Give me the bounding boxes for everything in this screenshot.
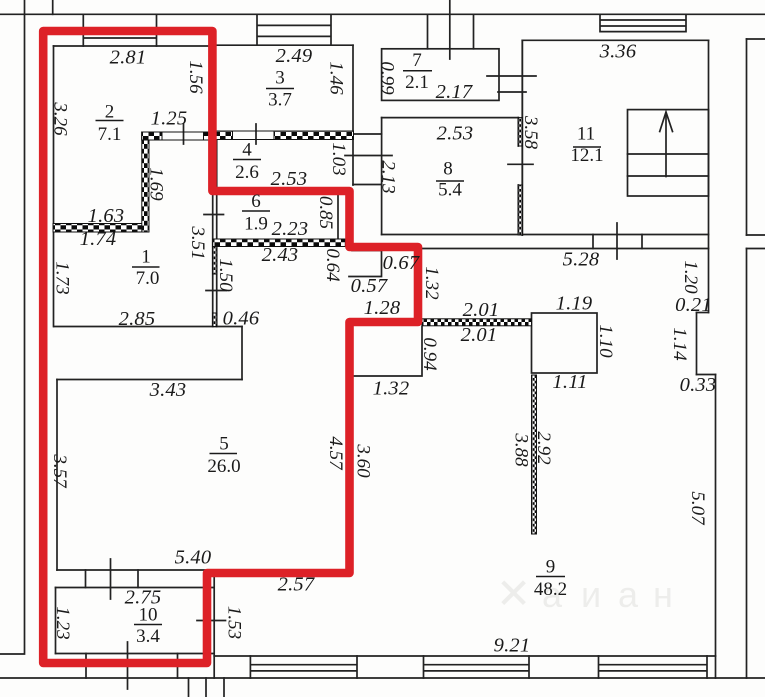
svg-text:н: н	[653, 574, 673, 615]
svg-text:11: 11	[577, 124, 595, 145]
svg-text:2.23: 2.23	[272, 218, 309, 240]
svg-text:3.88: 3.88	[511, 432, 532, 467]
svg-text:4: 4	[242, 140, 252, 161]
svg-text:0.21: 0.21	[675, 294, 712, 316]
svg-text:1.73: 1.73	[52, 261, 73, 294]
svg-text:1.69: 1.69	[146, 167, 167, 201]
svg-text:5.28: 5.28	[563, 249, 600, 271]
svg-text:8: 8	[443, 159, 453, 180]
svg-text:1: 1	[141, 247, 151, 268]
svg-text:5.4: 5.4	[438, 180, 462, 201]
svg-text:6: 6	[251, 191, 261, 212]
svg-text:2.13: 2.13	[378, 160, 399, 193]
svg-text:1.63: 1.63	[88, 205, 125, 227]
svg-text:2.92: 2.92	[533, 431, 554, 465]
svg-text:1.03: 1.03	[328, 142, 349, 175]
svg-text:1.25: 1.25	[151, 108, 188, 130]
svg-text:0.67: 0.67	[383, 252, 420, 274]
svg-text:48.2: 48.2	[534, 579, 567, 600]
svg-text:3.57: 3.57	[49, 453, 70, 489]
svg-text:1.20: 1.20	[680, 260, 701, 294]
svg-text:3.60: 3.60	[353, 443, 374, 478]
svg-text:3.36: 3.36	[599, 41, 637, 63]
svg-text:✕: ✕	[496, 570, 531, 617]
svg-text:3.58: 3.58	[520, 115, 541, 150]
svg-text:9.21: 9.21	[494, 635, 531, 657]
svg-text:0.64: 0.64	[322, 248, 343, 282]
svg-text:2.81: 2.81	[110, 47, 147, 69]
svg-text:2.01: 2.01	[461, 324, 498, 346]
svg-text:2.01: 2.01	[463, 299, 500, 321]
svg-text:2.6: 2.6	[235, 162, 259, 183]
svg-text:2.75: 2.75	[125, 587, 162, 609]
svg-text:1.32: 1.32	[373, 378, 410, 400]
svg-text:5: 5	[219, 434, 229, 455]
svg-text:0.99: 0.99	[377, 61, 398, 95]
svg-text:2.85: 2.85	[119, 308, 156, 330]
svg-text:7: 7	[412, 50, 422, 71]
svg-text:3.7: 3.7	[268, 90, 292, 111]
svg-text:4.57: 4.57	[325, 436, 346, 471]
svg-text:2.53: 2.53	[271, 168, 308, 190]
svg-text:1.28: 1.28	[364, 297, 401, 319]
svg-text:9: 9	[546, 557, 556, 578]
svg-text:0.94: 0.94	[419, 337, 440, 371]
svg-text:и: и	[581, 574, 601, 615]
svg-text:1.11: 1.11	[552, 371, 587, 393]
svg-text:а: а	[618, 574, 639, 615]
svg-text:2: 2	[105, 102, 115, 123]
svg-text:5.07: 5.07	[687, 491, 708, 526]
svg-text:3.43: 3.43	[149, 379, 187, 401]
svg-text:0.46: 0.46	[223, 308, 260, 330]
svg-text:2.1: 2.1	[405, 72, 429, 93]
svg-text:5.40: 5.40	[175, 547, 212, 569]
svg-text:2.49: 2.49	[276, 45, 313, 67]
svg-text:2.53: 2.53	[437, 123, 474, 145]
svg-text:0.85: 0.85	[315, 196, 336, 229]
svg-text:3.51: 3.51	[187, 225, 208, 259]
svg-text:1.50: 1.50	[215, 258, 236, 292]
svg-text:26.0: 26.0	[207, 456, 240, 477]
svg-text:1.46: 1.46	[326, 61, 347, 95]
svg-text:1.56: 1.56	[185, 60, 206, 94]
svg-text:12.1: 12.1	[570, 145, 603, 166]
svg-text:1.14: 1.14	[669, 327, 690, 361]
svg-text:1.19: 1.19	[556, 293, 593, 315]
svg-text:1.9: 1.9	[244, 214, 268, 235]
svg-text:3.4: 3.4	[136, 626, 160, 647]
svg-text:1.74: 1.74	[80, 228, 117, 250]
svg-text:0.33: 0.33	[680, 374, 717, 396]
svg-text:1.53: 1.53	[224, 606, 245, 639]
svg-text:7.0: 7.0	[136, 268, 160, 289]
svg-text:2.57: 2.57	[278, 574, 315, 596]
svg-text:2.43: 2.43	[262, 244, 299, 266]
svg-text:1.32: 1.32	[421, 266, 442, 300]
svg-text:1.10: 1.10	[595, 324, 616, 358]
svg-text:7.1: 7.1	[98, 124, 122, 145]
svg-text:0.57: 0.57	[351, 275, 388, 297]
svg-text:3.26: 3.26	[50, 101, 71, 136]
svg-text:3: 3	[275, 68, 285, 89]
svg-text:2.17: 2.17	[436, 81, 473, 103]
svg-text:1.23: 1.23	[52, 606, 73, 639]
